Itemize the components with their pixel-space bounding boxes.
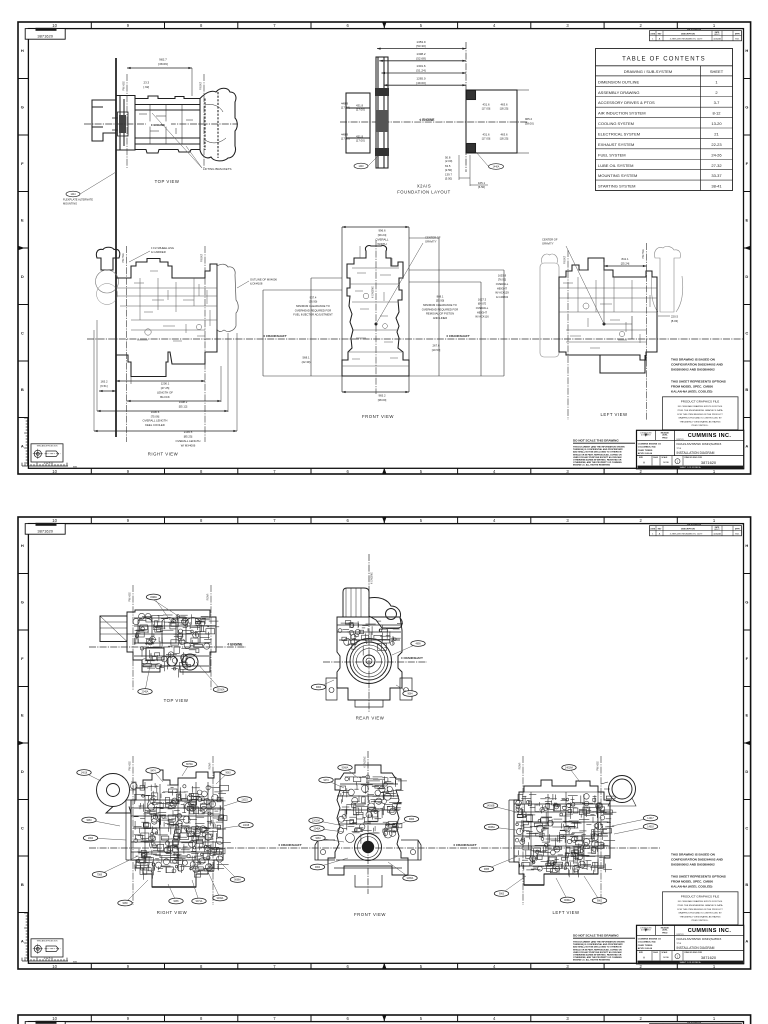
svg-text:982.7: 982.7	[159, 58, 167, 62]
svg-text:2045A: 2045A	[314, 828, 321, 831]
right view front accessory outline	[217, 264, 238, 331]
flexplate callout oval	[66, 191, 80, 197]
svg-text:ELECTRICAL SYSTEM: ELECTRICAL SYSTEM	[598, 131, 640, 136]
svg-text:9068A: 9068A	[342, 767, 349, 770]
svg-text:OVERHEAD REQUIRED FOR: OVERHEAD REQUIRED FOR	[295, 308, 331, 312]
svg-text:OUTLINE OF MX4006: OUTLINE OF MX4006	[250, 278, 277, 282]
svg-text:DIMENSION OUTLINE: DIMENSION OUTLINE	[598, 79, 639, 84]
svg-text:¢ ENGINE: ¢ ENGINE	[371, 572, 374, 584]
svg-text:38-41: 38-41	[711, 184, 722, 189]
crankshaft label left	[258, 333, 293, 338]
svg-text:[35.90]: [35.90]	[436, 299, 444, 303]
right view engine outline	[116, 259, 217, 377]
svg-text:9469A: 9469A	[217, 897, 224, 900]
svg-text:9071A: 9071A	[196, 900, 203, 903]
svg-text:GRAVITY: GRAVITY	[542, 242, 554, 246]
foundation layout centerline vertical	[465, 42, 467, 172]
svg-text:& DN4108: & DN4108	[250, 282, 263, 286]
foundation left pad rect	[346, 57, 529, 168]
svg-text:4999: 4999	[415, 644, 421, 646]
svg-text:MOUNTING SYSTEM: MOUNTING SYSTEM	[598, 173, 637, 178]
svg-text:9066: 9066	[409, 819, 415, 821]
page2 rear view crank label	[396, 655, 428, 660]
top view engine outline	[92, 88, 237, 161]
svg-text:DRAWING / SUB-SYSTEM: DRAWING / SUB-SYSTEM	[624, 69, 673, 74]
svg-text:FW HSG: FW HSG	[123, 81, 126, 91]
left view air cleaner ghost	[540, 246, 683, 357]
svg-text:9062: 9062	[597, 901, 603, 903]
svg-text:¢ ENGINE: ¢ ENGINE	[372, 286, 375, 298]
svg-text:1444: 1444	[70, 194, 76, 196]
svg-text:9066A: 9066A	[488, 826, 495, 829]
right view internal lines	[116, 288, 217, 330]
svg-text:FRONT: FRONT	[201, 253, 204, 262]
svg-text:14016A: 14016A	[565, 767, 573, 770]
svg-text:8079A: 8079A	[186, 763, 193, 766]
svg-text:RIGHT VIEW: RIGHT VIEW	[148, 452, 179, 457]
page2 crankshaft centerline	[89, 847, 660, 849]
svg-text:2064: 2064	[88, 838, 94, 840]
foundation layout centerline horizontal	[340, 121, 528, 123]
page2 top view engine outline	[100, 610, 216, 672]
svg-text:9063: 9063	[225, 773, 231, 775]
svg-text:[10.53]: [10.53]	[432, 348, 441, 352]
svg-text:12010A: 12010A	[217, 689, 225, 692]
svg-text:FW HSG: FW HSG	[122, 253, 125, 263]
svg-text:[17.00]: [17.00]	[356, 139, 365, 143]
svg-text:OVERALL LENGTH: OVERALL LENGTH	[143, 419, 168, 423]
right view datum dashdots	[126, 246, 128, 442]
front view clearance extension lines	[310, 278, 312, 376]
svg-text:1353.9: 1353.9	[416, 40, 426, 44]
front view engine outline	[342, 246, 409, 376]
svg-text:FRONT: FRONT	[564, 255, 567, 264]
svg-text:11015: 11015	[241, 800, 248, 802]
svg-text:165.2: 165.2	[101, 380, 108, 384]
svg-text:568.1: 568.1	[303, 356, 310, 360]
svg-text:W/ AC4129: W/ AC4129	[495, 291, 509, 295]
svg-text:965.2: 965.2	[525, 117, 532, 121]
svg-text:REAR: REAR	[209, 762, 212, 769]
svg-text:[18.25]: [18.25]	[500, 107, 509, 111]
front view center line vertical	[375, 240, 377, 394]
svg-text:965.2: 965.2	[379, 394, 386, 398]
svg-text:[52.68]: [52.68]	[416, 56, 425, 60]
svg-text:LENGTH OF: LENGTH OF	[157, 390, 173, 394]
svg-text:GRAVITY: GRAVITY	[425, 240, 437, 244]
flywheel circles	[347, 639, 392, 684]
page2 crank label left	[270, 842, 310, 847]
svg-text:8-12: 8-12	[712, 111, 721, 116]
svg-text:[38.00]: [38.00]	[525, 121, 534, 125]
svg-text:21: 21	[714, 131, 719, 136]
svg-text:9068: 9068	[122, 903, 128, 905]
svg-text:1265.0: 1265.0	[416, 76, 426, 80]
svg-text:9063: 9063	[86, 820, 92, 822]
svg-text:[51.24]: [51.24]	[416, 69, 425, 73]
svg-text:[5.50]: [5.50]	[445, 176, 452, 180]
svg-text:33-37: 33-37	[711, 173, 722, 178]
svg-text:ASSEMBLY DRAWING: ASSEMBLY DRAWING	[598, 90, 640, 95]
svg-text:REAR VIEW: REAR VIEW	[356, 716, 385, 721]
top view centerline	[84, 123, 238, 125]
svg-text:9474: 9474	[150, 771, 156, 773]
svg-text:CENTER OF: CENTER OF	[425, 236, 441, 240]
svg-text:[49.60]: [49.60]	[416, 81, 425, 85]
svg-text:RIGHT VIEW: RIGHT VIEW	[157, 910, 188, 915]
svg-text:9063: 9063	[316, 687, 322, 689]
svg-text:LUBE OIL SYSTEM: LUBE OIL SYSTEM	[598, 163, 633, 168]
page2 front view mount brackets	[315, 840, 335, 860]
svg-text:1440: 1440	[358, 166, 364, 168]
svg-text:FW HSG: FW HSG	[597, 761, 600, 771]
svg-text:LEFT VIEW: LEFT VIEW	[600, 412, 628, 417]
svg-text:KEEL COOLED: KEEL COOLED	[145, 423, 165, 427]
svg-text:MINIMUM CLEARANCE TO: MINIMUM CLEARANCE TO	[423, 303, 457, 307]
svg-text:14016B: 14016B	[487, 806, 495, 808]
page2 right view structural bands	[131, 782, 223, 860]
svg-text:841.1: 841.1	[622, 257, 629, 261]
svg-text:9063: 9063	[499, 894, 505, 896]
svg-text:FRONT VIEW: FRONT VIEW	[354, 912, 386, 917]
svg-text:W/ AC4116: W/ AC4116	[475, 315, 489, 319]
page2 right view datum dashdots	[132, 756, 134, 905]
svg-text:9064A: 9064A	[564, 899, 571, 902]
svg-text:W/ MX4006: W/ MX4006	[181, 443, 196, 447]
svg-text:STARTING SYSTEM: STARTING SYSTEM	[598, 184, 635, 189]
rear feet	[326, 678, 412, 700]
page2 left view callouts	[491, 806, 517, 813]
svg-text:[18.25]: [18.25]	[500, 137, 509, 141]
svg-text:REAR: REAR	[207, 593, 210, 600]
svg-text:1338.2: 1338.2	[416, 52, 426, 56]
svg-text:9064: 9064	[407, 694, 413, 696]
svg-text:FW HSG: FW HSG	[129, 592, 132, 602]
left view datum dashdots	[567, 250, 569, 420]
page2 rear view engine outline	[326, 588, 412, 707]
svg-text:ACCESSORY DRIVES & PTOS: ACCESSORY DRIVES & PTOS	[598, 100, 655, 105]
center of gravity dot front view	[375, 323, 378, 326]
page2 top view callouts	[154, 597, 171, 620]
page2 rear view crank centerline	[323, 661, 427, 663]
svg-text:FLEXPLATE ALTERNATE: FLEXPLATE ALTERNATE	[63, 198, 93, 202]
page2 rear view structural bands	[337, 625, 401, 640]
svg-text:1301.6: 1301.6	[416, 64, 426, 68]
sheet 1 frame	[18, 22, 751, 474]
svg-text:MOUNTING: MOUNTING	[63, 201, 77, 205]
svg-text:FUEL INJECTOR ADJUSTMENT: FUEL INJECTOR ADJUSTMENT	[293, 313, 333, 317]
svg-text:FUEL SYSTEM: FUEL SYSTEM	[598, 152, 626, 157]
svg-text:[17.00]: [17.00]	[482, 107, 491, 111]
svg-text:9064: 9064	[315, 867, 321, 869]
svg-text:1906.6: 1906.6	[151, 410, 160, 414]
svg-text:[55.12]: [55.12]	[179, 404, 188, 408]
svg-text:808.1: 808.1	[437, 294, 444, 298]
left view exhaust stack ghost	[655, 246, 681, 312]
svg-text:[39.24]: [39.24]	[378, 233, 387, 237]
svg-text:[17.58]: [17.58]	[341, 106, 350, 110]
page2 front view engine outline	[315, 765, 421, 887]
svg-text:1440A: 1440A	[493, 166, 500, 169]
svg-text:LIFTING BRACKETS: LIFTING BRACKETS	[203, 167, 232, 171]
page2 right view engine outline	[131, 770, 223, 887]
svg-text:23.3: 23.3	[144, 80, 150, 84]
svg-text:1627.3: 1627.3	[478, 297, 487, 301]
label C engine (top view)	[146, 121, 171, 126]
svg-text:FW HSG: FW HSG	[642, 249, 645, 259]
svg-text:9065: 9065	[173, 901, 179, 903]
svg-text:AND LINER: AND LINER	[433, 316, 447, 320]
svg-text:[76.92]: [76.92]	[498, 278, 506, 282]
left view CG dot and dims	[603, 323, 606, 326]
svg-text:1653.8: 1653.8	[498, 273, 507, 277]
page2 left view air cleaner ring	[509, 776, 636, 886]
page2 top view datum dashdots	[132, 585, 134, 690]
svg-text:1408.2: 1408.2	[179, 400, 188, 404]
svg-text:[6.50]: [6.50]	[478, 185, 485, 189]
svg-text:OVERALL: OVERALL	[376, 237, 389, 241]
crankshaft centerline page1	[87, 338, 743, 340]
svg-text:1200.1: 1200.1	[161, 382, 170, 386]
svg-text:MINIMUM CLEARANCE TO: MINIMUM CLEARANCE TO	[296, 304, 330, 308]
svg-text:HEIGHT: HEIGHT	[497, 286, 508, 290]
foundation right pad rect	[466, 90, 517, 153]
sheet 2 frame	[18, 517, 751, 969]
crankshaft label right	[438, 333, 478, 338]
svg-text:3-7: 3-7	[714, 100, 721, 105]
svg-text:CENTER OF: CENTER OF	[542, 238, 558, 242]
left view CG leader	[566, 246, 604, 324]
svg-text:[8.03]: [8.03]	[671, 319, 678, 323]
svg-text:14018: 14018	[647, 827, 654, 829]
svg-text:937.4: 937.4	[310, 295, 317, 299]
svg-text:REMOVAL OF PISTON: REMOVAL OF PISTON	[426, 312, 454, 316]
page2 front view structural bands	[334, 784, 402, 868]
svg-text:[38.00]: [38.00]	[378, 398, 387, 402]
svg-text:[38.69]: [38.69]	[158, 62, 168, 66]
page2 top view label C engine	[221, 641, 249, 647]
lifting brackets callout	[152, 113, 202, 168]
svg-text:BLOCK: BLOCK	[160, 395, 170, 399]
svg-text:REAR: REAR	[519, 762, 522, 769]
svg-text:[17.00]: [17.00]	[356, 108, 365, 112]
svg-text:14018: 14018	[243, 825, 250, 827]
svg-text:OVERALL LENGTH: OVERALL LENGTH	[176, 439, 201, 443]
svg-text:[2.50]: [2.50]	[445, 168, 452, 172]
svg-text:22-23: 22-23	[711, 142, 722, 147]
svg-text:¢ CRANKSHAFT: ¢ CRANKSHAFT	[263, 334, 287, 338]
svg-text:[25.24]: [25.24]	[621, 262, 630, 266]
page2 front view vertical centerline	[367, 751, 369, 894]
svg-text:(2.00): (2.00)	[445, 159, 452, 163]
svg-text:¢ CRANKSHAFT: ¢ CRANKSHAFT	[453, 843, 477, 847]
svg-text:[75.06]: [75.06]	[151, 414, 160, 418]
svg-text:OVERHEAD REQUIRED FOR: OVERHEAD REQUIRED FOR	[422, 307, 458, 311]
svg-text:4999A: 4999A	[150, 596, 157, 599]
svg-text:[85.25]: [85.25]	[184, 435, 193, 439]
svg-text:OVERALL: OVERALL	[476, 306, 489, 310]
svg-text:7066: 7066	[97, 875, 103, 877]
page2 top view structural bands	[127, 618, 210, 666]
sheet 3 frame (clipped)	[18, 1015, 751, 1024]
svg-text:X2AIS: X2AIS	[417, 183, 431, 188]
svg-text:EXHAUST SYSTEM: EXHAUST SYSTEM	[598, 142, 634, 147]
svg-text:AIR INDUCTION SYSTEM: AIR INDUCTION SYSTEM	[598, 111, 646, 116]
svg-text:HEIGHT: HEIGHT	[477, 310, 488, 314]
table of contents	[596, 49, 733, 191]
svg-text:9474: 9474	[323, 780, 329, 782]
svg-text:TABLE OF CONTENTS: TABLE OF CONTENTS	[622, 56, 706, 62]
svg-text:14016: 14016	[81, 773, 88, 775]
svg-text:& C49843: & C49843	[496, 295, 508, 299]
svg-text:¢ CRANKSHAFT: ¢ CRANKSHAFT	[446, 334, 470, 338]
svg-text:¢ ENGINE: ¢ ENGINE	[420, 118, 435, 122]
svg-text:[47.25]: [47.25]	[161, 386, 170, 390]
svg-text:9065A: 9065A	[407, 877, 414, 880]
svg-text:[64.07]: [64.07]	[478, 302, 486, 306]
svg-text:¢ CRANKSHAFT: ¢ CRANKSHAFT	[278, 843, 302, 847]
svg-text:2045A: 2045A	[142, 691, 149, 694]
rear datum dashdot (top view)	[203, 74, 205, 168]
svg-text:¢ CRANKSHAFT: ¢ CRANKSHAFT	[401, 656, 423, 660]
front view width dim box	[341, 227, 343, 392]
page2 crank label right	[444, 842, 486, 847]
svg-text:TOP VIEW: TOP VIEW	[155, 179, 180, 184]
svg-text:¢ FLYWHEEL HSG: ¢ FLYWHEEL HSG	[151, 246, 174, 250]
svg-text:TOP VIEW: TOP VIEW	[164, 698, 189, 703]
svg-text:[53.30]: [53.30]	[416, 44, 425, 48]
svg-text:267.6: 267.6	[433, 344, 440, 348]
svg-text:OVERALL: OVERALL	[496, 282, 509, 286]
svg-text:996.6: 996.6	[379, 229, 386, 233]
svg-text:9066A: 9066A	[234, 879, 241, 882]
svg-text:FW HSG: FW HSG	[129, 761, 132, 771]
svg-text:27-32: 27-32	[711, 163, 722, 168]
svg-text:12010A: 12010A	[312, 820, 320, 823]
svg-text:[6.51]: [6.51]	[101, 384, 108, 388]
damper circles	[355, 834, 382, 861]
svg-text:14017: 14017	[647, 818, 654, 820]
page2 rear view callouts	[392, 644, 418, 656]
svg-text:¢ ENGINE: ¢ ENGINE	[363, 756, 366, 768]
svg-text:& CARRIER: & CARRIER	[151, 250, 166, 254]
svg-text:9065: 9065	[484, 869, 490, 871]
svg-text:(22.39): (22.39)	[302, 360, 311, 364]
front datum dashdot (top view)	[126, 74, 128, 168]
svg-text:LEFT VIEW: LEFT VIEW	[552, 910, 580, 915]
svg-text:24-26: 24-26	[711, 152, 722, 157]
page2 top view centerline	[89, 646, 246, 648]
svg-text:(36.90): (36.90)	[309, 300, 318, 304]
page2 right view air cleaner	[97, 770, 224, 887]
label C engine (foundation)	[413, 116, 441, 122]
right view exhaust stack	[96, 247, 239, 376]
svg-text:[17.00]: [17.00]	[482, 137, 491, 141]
svg-text:9063: 9063	[315, 838, 321, 840]
page2 left view datum dashdots	[522, 756, 524, 905]
page2 front view callouts	[345, 768, 358, 779]
svg-text:SHEET: SHEET	[710, 69, 724, 74]
svg-text:¢ ENGINE: ¢ ENGINE	[228, 642, 243, 646]
foundation callout ovals	[354, 163, 368, 169]
svg-text:FRONT: FRONT	[200, 81, 203, 90]
svg-text:13-20: 13-20	[711, 121, 722, 126]
left view engine outline	[559, 258, 657, 373]
flywheel detail cluster	[112, 112, 128, 136]
foundation mounting rail	[376, 57, 388, 168]
page2 left view engine outline	[514, 780, 610, 885]
page2 left view structural bands	[514, 792, 610, 866]
svg-text:[.92]: [.92]	[144, 85, 150, 89]
svg-text:[17.58]: [17.58]	[341, 137, 350, 141]
svg-text:COOLING SYSTEM: COOLING SYSTEM	[598, 121, 634, 126]
svg-text:FOUNDATION LAYOUT: FOUNDATION LAYOUT	[397, 190, 450, 195]
page2 right view callouts	[84, 773, 101, 782]
datum line flywheel housing face	[115, 58, 117, 437]
svg-text:FRONT VIEW: FRONT VIEW	[362, 414, 394, 419]
page2 rear view vertical centerline	[368, 554, 370, 712]
